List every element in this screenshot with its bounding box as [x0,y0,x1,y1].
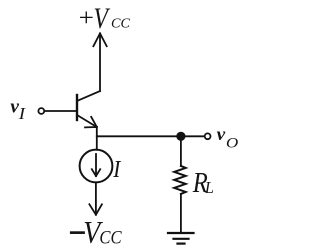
svg-text:O: O [226,135,239,151]
svg-text:L: L [204,178,214,197]
svg-text:CC: CC [99,227,122,248]
svg-text:+: + [79,4,94,32]
svg-text:CC: CC [111,16,131,30]
svg-text:v: v [217,124,226,144]
svg-text:V: V [94,1,111,34]
svg-text:I: I [112,156,121,183]
svg-text:I: I [18,104,26,123]
